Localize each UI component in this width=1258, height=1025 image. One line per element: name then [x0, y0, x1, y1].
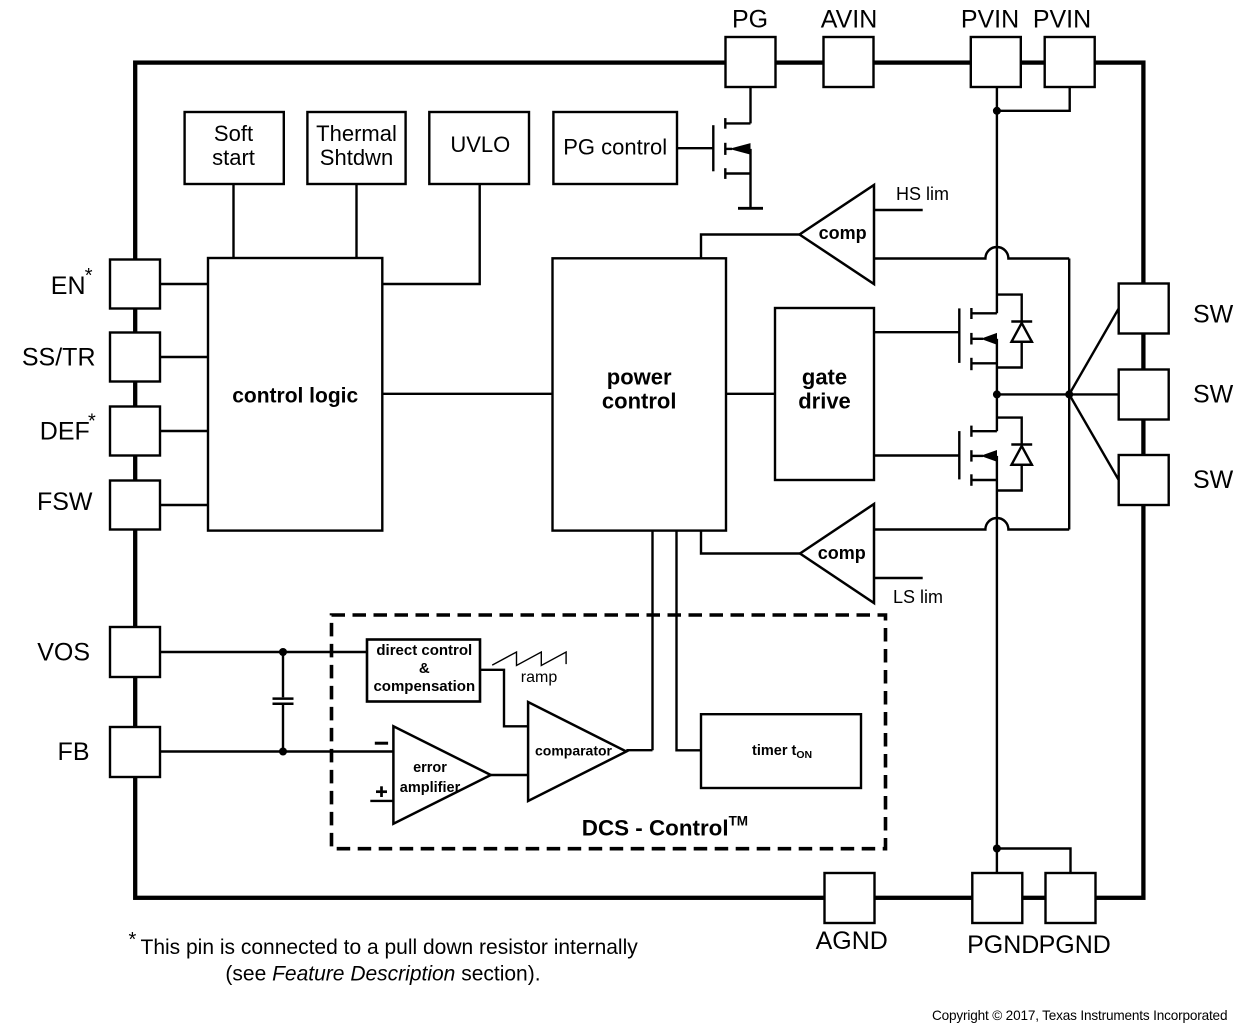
svg-text:comp: comp — [818, 543, 866, 563]
svg-text:FSW: FSW — [37, 488, 93, 516]
svg-text:DEF: DEF — [40, 417, 90, 445]
svg-text:compensation: compensation — [373, 678, 475, 695]
svg-text:UVLO: UVLO — [450, 132, 510, 157]
svg-text:SS/TR: SS/TR — [22, 343, 96, 371]
svg-text:Thermal: Thermal — [316, 121, 397, 146]
svg-text:AGND: AGND — [816, 927, 888, 955]
svg-text:SW: SW — [1193, 380, 1234, 408]
svg-text:control logic: control logic — [232, 385, 358, 408]
svg-text:Shtdwn: Shtdwn — [320, 145, 393, 170]
svg-text:EN: EN — [51, 272, 86, 300]
svg-text:comp: comp — [819, 223, 867, 243]
svg-text:PVIN: PVIN — [961, 6, 1019, 34]
svg-text:VOS: VOS — [37, 638, 90, 666]
svg-text:power: power — [607, 365, 672, 390]
svg-text:This pin is connected to a pul: This pin is connected to a pull down res… — [141, 936, 639, 959]
svg-text:PG: PG — [732, 6, 768, 34]
svg-text:*: * — [129, 929, 137, 951]
svg-text:PVIN: PVIN — [1033, 6, 1091, 34]
svg-text:AVIN: AVIN — [821, 6, 878, 34]
svg-text:(see Feature Description secti: (see Feature Description section). — [225, 963, 540, 986]
svg-text:*: * — [85, 265, 93, 287]
svg-text:Copyright © 2017, Texas Instru: Copyright © 2017, Texas Instruments Inco… — [932, 1008, 1228, 1023]
svg-text:PGND: PGND — [1039, 931, 1111, 959]
svg-text:SW: SW — [1193, 300, 1234, 328]
svg-text:SW: SW — [1193, 466, 1234, 494]
svg-text:gate: gate — [802, 365, 847, 390]
svg-text:&: & — [419, 660, 430, 677]
svg-text:Soft: Soft — [214, 121, 253, 146]
svg-text:DCS - ControlTM: DCS - ControlTM — [582, 814, 748, 841]
svg-text:comparator: comparator — [535, 742, 613, 758]
svg-text:amplifier: amplifier — [400, 780, 461, 796]
svg-text:control: control — [602, 389, 677, 414]
svg-text:PGND: PGND — [967, 931, 1039, 959]
svg-text:error: error — [413, 760, 447, 776]
svg-text:ramp: ramp — [521, 669, 558, 686]
svg-text:PG control: PG control — [563, 135, 667, 160]
svg-text:*: * — [88, 411, 96, 433]
svg-text:drive: drive — [798, 389, 851, 414]
svg-text:FB: FB — [58, 738, 90, 766]
svg-text:HS lim: HS lim — [896, 184, 949, 204]
svg-text:direct control: direct control — [376, 642, 472, 659]
svg-text:LS lim: LS lim — [893, 587, 943, 607]
svg-text:start: start — [212, 145, 255, 170]
